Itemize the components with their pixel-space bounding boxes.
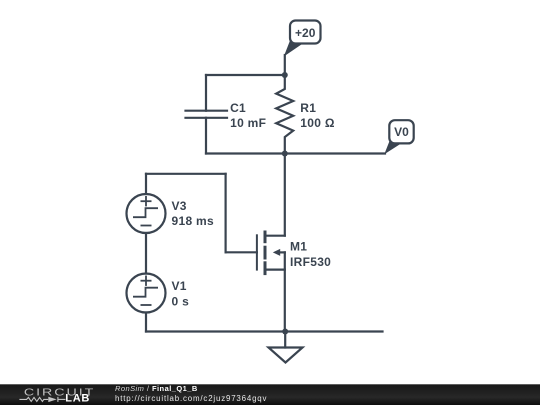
svg-text:RonSim / Final_Q1_B: RonSim / Final_Q1_B: [115, 384, 198, 393]
svg-text:918 ms: 918 ms: [172, 214, 215, 228]
svg-text:0 s: 0 s: [172, 295, 190, 309]
svg-text:+20: +20: [295, 26, 316, 40]
svg-text:http://circuitlab.com/c2juz973: http://circuitlab.com/c2juz97364gqv: [115, 394, 267, 403]
svg-text:LAB: LAB: [65, 392, 90, 404]
svg-text:V1: V1: [172, 279, 187, 293]
svg-text:C1: C1: [230, 101, 246, 115]
svg-text:100 Ω: 100 Ω: [300, 116, 335, 130]
svg-text:V0: V0: [394, 125, 409, 139]
svg-text:V3: V3: [172, 199, 187, 213]
svg-text:IRF530: IRF530: [290, 255, 331, 269]
svg-text:R1: R1: [300, 101, 316, 115]
svg-text:M1: M1: [290, 239, 307, 253]
svg-text:10 mF: 10 mF: [230, 116, 266, 130]
